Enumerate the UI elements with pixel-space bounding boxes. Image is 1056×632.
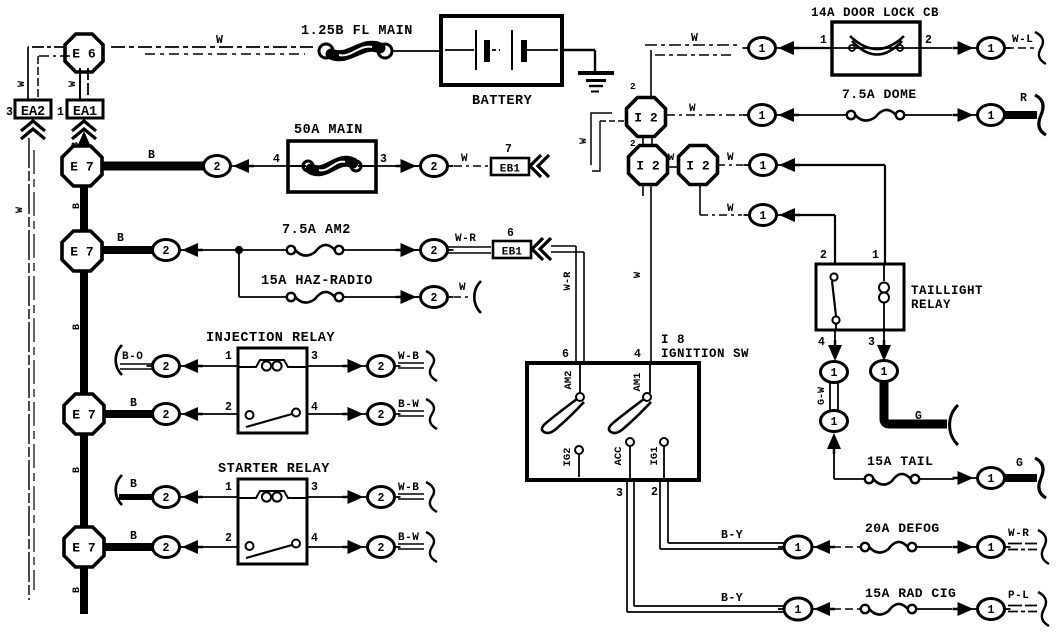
chevron under EA1 [72,121,96,139]
wire W-R double to EB1 [447,247,491,253]
wire G thick elbow [884,382,947,424]
arrow into terminal (inj pin2) [182,407,203,421]
svg-text:1: 1 [820,34,827,47]
wire label B-W (starter) [398,532,419,544]
wire W-B double [398,363,424,368]
svg-text:B-O: B-O [122,351,143,363]
svg-text:2: 2 [163,542,170,555]
pin 2 label (starter relay) [225,532,232,545]
svg-text:W-B: W-B [398,351,419,363]
wire label W-R (AM2 row) [455,233,476,245]
wire label G (tail row) [1016,457,1023,470]
wire I2#2 down to ignition switch [643,184,651,363]
ignition IG1 contact [649,438,668,480]
svg-text:W: W [17,81,28,87]
arrow into terminal (starter pin1) [182,490,203,504]
svg-text:2: 2 [378,409,385,422]
wire terminal to relay pin2 [201,413,238,415]
svg-text:W: W [461,153,468,165]
hook end (starter B wire) [116,475,122,505]
arrow into terminal (taillight sw row) [779,208,800,222]
svg-text:B: B [130,530,137,543]
connector I2 #2 (octagon) [629,146,668,185]
hook end (R dome) [1035,95,1046,135]
pin 4 label (50A) [273,153,280,166]
hook end (HAZ row) [474,281,481,313]
arrow down into terminal (pin3) [877,340,891,361]
wire B arrow up into EA1 chevron [77,131,91,152]
svg-text:1.25B FL MAIN: 1.25B FL MAIN [301,24,413,39]
wire label W-B (inj) [398,351,419,363]
wire B-W double [398,411,424,416]
wire W vertical (left edge, below EA2) [29,138,34,600]
circuit breaker 14A DOOR LOCK CB [832,22,920,75]
svg-text:2: 2 [431,245,438,258]
svg-text:W-L: W-L [1012,34,1033,46]
hook end (B-W starter) [426,532,437,562]
arrow into terminal (starter pin4) [343,540,364,554]
battery (box with cells) [441,16,562,85]
wire CB to arrow [920,47,952,49]
arrow into terminal (AM2 row) [182,243,203,257]
connector terminal 1 (G-W lower) [821,411,848,432]
ignition IG2 contact [562,446,583,477]
connector E7 #3 (octagon) [64,394,104,434]
svg-text:E 6: E 6 [72,47,96,62]
wire terminal to relay pin1 [201,496,238,498]
connector I2 #1 (octagon) [627,98,666,137]
wire terminal to taillight relay pin2 [798,215,835,264]
svg-text:1: 1 [988,110,995,123]
wire label W (50A row) [461,153,468,165]
svg-text:AM1: AM1 [632,373,644,392]
arrow into terminal (inj pin3) [343,359,364,373]
chevron into EB1 (50A row) [530,155,549,177]
svg-text:B: B [130,478,137,491]
wire brackets left of I2#1 [591,113,627,171]
svg-text:TAILLIGHT: TAILLIGHT [911,284,983,298]
connector terminal 2 (inj pin3) [362,356,401,377]
wire label B-Y (defog) [721,529,743,542]
wire relay pin4 to arrow [307,413,352,415]
connector terminal 2 (starter pin2) [147,537,186,558]
pin 2 label (door lock CB) [925,34,932,47]
wire label B (50A row) [148,149,155,162]
arrow into terminal (rad cig right) [953,602,974,616]
arrow into terminal (defog right) [953,540,974,554]
wire G-W double [830,382,838,412]
wire B thick to terminal (starter pin1) [119,494,153,500]
arrow into terminal right (50A row) [396,159,417,173]
svg-text:1: 1 [881,366,888,379]
wire label B (EA1 arrow) [71,142,82,148]
fuse 20A DEFOG [861,542,916,553]
wire label W-B (starter) [398,482,419,494]
wire terminal to fuse AM2 [201,249,287,251]
svg-text:1: 1 [831,416,838,429]
svg-text:W-R: W-R [562,271,574,291]
switch box (ignition switch I8) [527,363,699,480]
wire label W (dome row) [689,103,696,115]
svg-text:6: 6 [507,227,514,240]
connector terminal 2 (inj pin1) [147,356,186,377]
wire to fuse box 50A [252,165,291,167]
hook end (W-L) [1035,32,1046,64]
svg-text:1: 1 [795,604,802,617]
ignition AM2 contact and lever [542,363,584,433]
wire B bus segment E7#1-E7#2 [80,185,88,232]
chevron into EB1 (AM2 row) [532,238,551,260]
wire B thick E7#4 to terminal [103,543,153,551]
svg-text:1: 1 [988,473,995,486]
svg-text:P-L: P-L [1008,590,1029,602]
svg-text:14A DOOR LOCK CB: 14A DOOR LOCK CB [811,6,939,20]
relay switch (taillight relay) [830,273,839,330]
wire I2#3 to terminal (coil row) [717,164,743,166]
svg-text:W-R: W-R [455,233,476,245]
arrow up into terminal (G-W lower) [827,433,841,454]
wire B-Y from ignition pin3 to rad cig row [627,480,784,612]
wire relay pin3 to arrow (starter) [307,496,352,498]
relay switch (injection relay) [246,409,301,428]
hook end (W-B inj) [426,351,437,381]
wire label B-Y (rad cig) [721,592,743,605]
wire label W (taillight sw row) [727,203,734,215]
svg-text:2: 2 [651,486,658,499]
svg-text:I 2: I 2 [634,111,658,126]
wire label B (starter pin1) [130,478,137,491]
svg-text:I 2: I 2 [636,159,660,174]
connector EB1 (50A row) [491,158,529,176]
hook end (G tail) [1035,458,1046,498]
svg-text:E 7: E 7 [70,160,93,175]
connector terminal 1 (taillight coil row) [744,155,783,176]
svg-text:4: 4 [273,153,280,166]
wire fuse to arrow (50A row) [377,165,418,167]
svg-text:1: 1 [795,542,802,555]
relay coil (injection relay) [238,360,307,371]
arrow into terminal (taillight coil row) [779,158,800,172]
svg-text:B: B [148,149,155,162]
svg-text:2: 2 [378,492,385,505]
wire B bus segment E7#3-E7#4 [80,433,88,528]
svg-text:RELAY: RELAY [911,298,951,312]
svg-text:2: 2 [630,81,636,92]
svg-text:EA2: EA2 [21,105,45,120]
pin 2 label (I2#1 top) [630,81,636,92]
hook end (W-B starter) [426,482,437,512]
arrow into terminal (50A row) [233,159,254,173]
wire label B (AM2 row) [117,232,124,245]
svg-text:W: W [668,152,675,164]
svg-text:E 7: E 7 [72,408,95,423]
svg-text:1: 1 [872,249,879,262]
wire junction down to HAZ fuse [239,250,287,297]
svg-text:I 8: I 8 [661,333,685,347]
connector EB1 (AM2 row) [493,241,531,259]
pin 3 label (taillight relay bottom) [868,336,875,349]
arrow down into terminal (pin4) [828,340,842,361]
label INJECTION RELAY [206,331,335,346]
arrow into terminal (starter pin2) [182,540,203,554]
wire B thick E7#3 to terminal [103,410,153,418]
wire B thick E7#2 to connector [102,246,153,254]
svg-text:B-W: B-W [398,399,419,411]
wire fuse to arrow (defog) [916,546,952,548]
pin 1 label (door lock CB) [820,34,827,47]
label I 8 IGNITION SW [661,333,749,361]
svg-text:7.5A AM2: 7.5A AM2 [282,223,351,238]
connector terminal 2 (50A row left) [198,156,237,177]
svg-text:G-W: G-W [817,387,828,405]
svg-text:20A DEFOG: 20A DEFOG [865,521,940,536]
label BATTERY [472,94,533,109]
wire terminal to taillight relay pin1 [798,165,885,264]
wire label B (bus 2) [72,324,83,330]
svg-text:B-Y: B-Y [721,592,743,605]
wire W-B double (starter) [398,494,424,499]
wire label B-W (inj) [398,399,419,411]
svg-text:1: 1 [760,160,767,173]
wire B bus segment below E7#4 [80,566,88,614]
svg-text:2: 2 [214,161,221,174]
svg-text:2: 2 [431,161,438,174]
wire label W (left edge) [15,207,26,213]
wire label B (bus 4) [72,587,83,593]
connector terminal 2 (AM2 row left) [147,240,186,261]
svg-text:W: W [68,81,79,87]
wire I2#3 down to terminal [700,184,742,215]
wire label W-R (vertical) [562,271,574,291]
svg-text:2: 2 [820,249,827,262]
pin 3 label (50A) [380,153,387,166]
svg-text:7: 7 [505,143,512,156]
pin 3 label (ignition bottom) [616,487,623,500]
wire label W (top I2 row) [691,32,698,45]
arrow into terminal (starter pin3) [343,490,364,504]
connector terminal 1 (dome row right) [972,105,1011,126]
connector terminal 1 (G thick) [871,361,898,382]
svg-text:1: 1 [759,43,766,56]
wire W dashed to EB1 (50A row) [454,165,490,167]
connector EA2 (box) [15,100,51,120]
svg-text:INJECTION RELAY: INJECTION RELAY [206,331,335,346]
wire label B (bus 3) [72,467,83,473]
svg-text:W: W [579,138,590,144]
label 7.5A AM2 [282,223,351,238]
wire label W (E6 to FL) [216,34,223,47]
wire relay pin3 to arrow [307,365,352,367]
svg-text:E 7: E 7 [72,541,95,556]
connector E6 (octagon) [65,34,103,72]
svg-text:B: B [130,397,137,410]
relay box (starter relay) [238,479,307,564]
wire label W (to ignition) [632,271,644,278]
svg-text:4: 4 [311,532,318,545]
hook end (B-O wire) [116,345,122,375]
svg-text:W-R: W-R [1008,528,1029,540]
wire label W-R (defog) [1008,528,1029,540]
wire from I2#1 up and right to terminal [645,45,737,99]
connector terminal 1 (door lock row left) [743,38,782,59]
pin 3 label (EA2) [6,106,13,119]
svg-text:1: 1 [225,481,232,494]
svg-text:R: R [1020,92,1027,105]
pin 1 label (EA1) [57,106,64,119]
svg-text:2: 2 [163,245,170,258]
svg-text:1: 1 [988,542,995,555]
svg-text:W: W [459,282,466,294]
arrow into terminal (tail row) [953,471,974,485]
svg-text:B: B [117,232,124,245]
ignition ACC contact [613,438,634,480]
pin 6 label (EB1 lower) [507,227,514,240]
svg-text:3: 3 [6,106,13,119]
wire W-R double stub (defog) [1008,544,1037,550]
svg-text:2: 2 [431,292,438,305]
connector terminal 2 (starter pin1) [147,487,186,508]
arrow into terminal (door lock right) [953,41,974,55]
ground (battery negative) [578,73,614,92]
svg-text:1: 1 [225,350,232,363]
wire B bus segment E7#2-E7#3 [80,270,88,395]
svg-text:1: 1 [988,604,995,617]
connector E7 #1 (octagon) [62,146,102,186]
wire fuse to arrow (AM2 row) [343,249,418,251]
connector terminal 1 (G-W upper) [821,362,848,383]
svg-text:15A TAIL: 15A TAIL [867,454,933,469]
svg-text:W: W [689,103,696,115]
relay switch (starter relay) [246,540,301,559]
wire label B-O [122,351,143,363]
fuse 7.5A DOME [847,110,904,121]
wire B thick E7#1 to connector [102,162,205,171]
pin 4 label (injection relay) [311,401,318,414]
svg-text:W: W [216,34,223,47]
svg-text:3: 3 [616,487,623,500]
svg-text:3: 3 [380,153,387,166]
wire W dashed stub (HAZ row) [454,296,468,298]
svg-text:2: 2 [378,542,385,555]
arrow into terminal (inj pin1) [182,359,203,373]
svg-text:1: 1 [831,367,838,380]
label 14A DOOR LOCK CB [811,6,939,20]
wire battery to ground [562,50,595,72]
arrow into terminal (rad cig left) [814,602,835,616]
fuse 50A MAIN (fusible link in box) [288,141,376,192]
fuse 15A TAIL [865,474,919,485]
wire to fuse (rad cig) [833,608,861,610]
wire fuse to arrow (tail) [919,478,954,480]
relay coil (starter relay) [238,491,307,502]
wire label R (dome) [1020,92,1027,105]
wire label B (bus 1) [72,203,83,209]
connector terminal 2 (HAZ row right) [415,287,454,308]
svg-text:B-W: B-W [398,532,419,544]
wire R thick (dome) [1005,111,1037,119]
wire fuse to arrow (HAZ row) [343,296,418,298]
label 20A DEFOG [865,521,940,536]
hook end (G elbow) [950,405,958,445]
connector terminal 1 (defog right) [972,537,1011,558]
wire label G (elbow) [915,410,922,423]
connector terminal 2 (inj pin2) [147,404,186,425]
junction node (AM2/HAZ split) [235,246,242,253]
connector I2 #3 (octagon) [679,146,718,185]
pin 4 label (starter relay) [311,532,318,545]
svg-text:IGNITION SW: IGNITION SW [661,347,749,361]
wire down to 15A TAIL fuse [834,454,865,479]
svg-text:B: B [72,203,83,209]
fusible link 1.25B FL MAIN [319,44,392,58]
pin 2 label (I2#2 top) [630,138,636,149]
svg-text:50A MAIN: 50A MAIN [294,123,363,138]
svg-text:1: 1 [760,210,767,223]
connector EA1 (box) [67,100,103,120]
connector terminal 1 (rad cig right) [972,599,1011,620]
connector E7 #4 (octagon) [64,527,104,567]
svg-text:EB1: EB1 [502,247,523,259]
fuse 7.5A AM2 [287,245,343,256]
hook end (rad cig) [1038,592,1049,626]
svg-text:W: W [727,203,734,215]
pin 1 label (taillight relay top) [872,249,879,262]
connector terminal 2 (50A row right) [415,156,454,177]
wire P-L double stub (rad cig) [1008,606,1037,612]
svg-text:3: 3 [311,481,318,494]
svg-text:G: G [915,410,922,423]
svg-text:15A HAZ-RADIO: 15A HAZ-RADIO [261,274,373,289]
pin 4 label (taillight relay bottom) [818,336,825,349]
wire label W (taillight coil row) [727,152,734,164]
pin 7 label (EB1 top) [505,143,512,156]
label 15A HAZ-RADIO [261,274,373,289]
arrow into terminal (dome left) [778,108,799,122]
wire B-Y from ignition pin2 to defog row [660,480,784,549]
arrow into terminal (door lock left) [778,41,799,55]
pin 3 label (injection relay) [311,350,318,363]
wire fusible link to battery [392,50,441,52]
arrow into terminal (defog left) [814,540,835,554]
wire label B (inj pin2) [130,397,137,410]
wire terminal to relay pin1 [201,365,238,367]
label 15A TAIL [867,454,933,469]
label STARTER RELAY [218,462,330,477]
connector terminal 1 (defog left) [778,536,818,558]
wire label W (between I2s) [668,152,675,164]
ignition AM1 contact and lever [609,363,651,433]
wire W from E6 left to EA2 drop [28,47,70,100]
connector E7 #2 (octagon) [62,231,102,271]
svg-text:EB1: EB1 [500,164,521,176]
wire fuse to arrow (rad cig) [916,608,952,610]
svg-text:W: W [691,32,698,45]
wire terminal to fuse (dome) [797,114,847,116]
relay box (taillight relay) [816,264,904,330]
wire terminal to CB box [797,47,832,49]
svg-text:4: 4 [311,401,318,414]
label 7.5A DOME [842,87,917,102]
connector terminal 1 (rad cig left) [778,598,818,620]
svg-text:IG2: IG2 [562,448,574,467]
pin 2 label (injection relay) [225,401,232,414]
wire label G-W (vertical) [817,387,828,405]
svg-text:2: 2 [378,361,385,374]
pin 1 label (starter relay) [225,481,232,494]
wire W-L dashed stub [1006,47,1034,49]
svg-text:B-Y: B-Y [721,529,743,542]
arrow into terminal (inj pin4) [343,407,364,421]
